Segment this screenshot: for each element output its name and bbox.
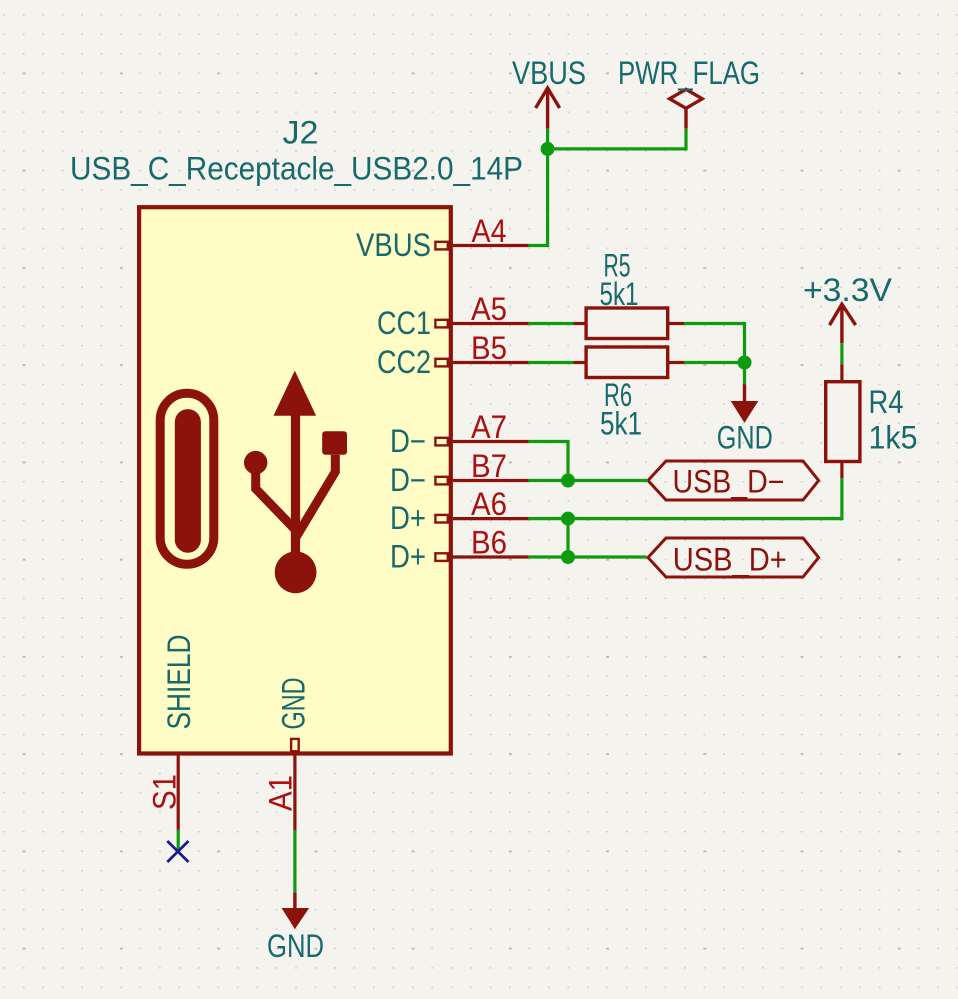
svg-text:B5: B5	[471, 330, 507, 366]
svg-text:+3.3V: +3.3V	[803, 272, 893, 308]
svg-text:B6: B6	[471, 525, 507, 561]
svg-text:A7: A7	[471, 409, 507, 445]
pin B5 CC2	[377, 330, 529, 380]
svg-text:A5: A5	[471, 291, 507, 327]
wire VBUS to PWR_FLAG	[548, 129, 686, 149]
wire A6 to R4	[529, 478, 842, 518]
svg-text:B7: B7	[471, 448, 507, 484]
svg-text:PWR_FLAG: PWR_FLAG	[618, 55, 760, 91]
wire VBUS vertical	[529, 129, 548, 246]
svg-text:CC2: CC2	[377, 344, 431, 380]
svg-text:D−: D−	[390, 462, 426, 498]
wire A6 to B6	[566, 519, 569, 557]
svg-text:S1: S1	[147, 774, 183, 810]
wire R6 to GND net	[684, 361, 745, 364]
svg-text:GND: GND	[276, 678, 312, 730]
junction A6	[561, 512, 575, 526]
junction GND net	[738, 356, 752, 370]
resistor R5	[574, 248, 685, 339]
svg-text:USB_D−: USB_D−	[673, 464, 785, 500]
svg-text:A6: A6	[471, 486, 507, 522]
no-connect X on S1	[167, 841, 188, 862]
svg-text:5k1: 5k1	[600, 406, 642, 442]
pin B6 D+	[390, 525, 529, 575]
wire B6 to USB_D+	[529, 555, 647, 558]
wire R4 to +3.3V	[840, 343, 843, 364]
pin A6 D+	[390, 486, 529, 536]
USB-C connector icon (stadium outline)	[160, 393, 214, 564]
wire CC2 to R6	[529, 361, 574, 364]
svg-text:A4: A4	[472, 213, 507, 249]
pin S1 SHIELD	[147, 635, 198, 830]
hierarchical label USB_D+	[648, 538, 819, 578]
svg-text:USB_C_Receptacle_USB2.0_14P: USB_C_Receptacle_USB2.0_14P	[70, 151, 523, 187]
wire A1 to GND	[293, 830, 296, 892]
USB trident logo	[244, 371, 347, 594]
value USB_C_Receptacle_USB2.0_14P	[70, 151, 523, 187]
resistor R4	[826, 364, 918, 478]
wire S1 stub	[177, 830, 180, 851]
svg-text:5k1: 5k1	[600, 276, 639, 312]
svg-text:D+: D+	[390, 500, 426, 536]
svg-text:GND: GND	[267, 928, 324, 964]
svg-text:D+: D+	[390, 539, 426, 575]
svg-text:USB_D+: USB_D+	[673, 542, 787, 578]
svg-text:D−: D−	[390, 423, 426, 459]
pin B7 D-	[390, 448, 529, 498]
pin A5 CC1	[377, 291, 529, 341]
power symbol PWR_FLAG	[618, 55, 760, 129]
wire R5 to GND net	[684, 324, 745, 385]
svg-text:1k5: 1k5	[869, 420, 918, 456]
svg-text:CC1: CC1	[377, 305, 431, 341]
pin A7 D-	[390, 409, 529, 459]
power symbol VBUS	[512, 55, 586, 129]
power symbol GND (mid)	[717, 384, 773, 455]
reference J2	[283, 115, 319, 151]
svg-text:GND: GND	[717, 420, 773, 456]
svg-text:VBUS: VBUS	[512, 55, 586, 91]
svg-text:R4: R4	[869, 384, 904, 420]
pin A4 VBUS	[356, 213, 529, 263]
connector J2 body	[139, 207, 451, 753]
svg-text:VBUS: VBUS	[356, 227, 431, 263]
svg-text:SHIELD: SHIELD	[161, 635, 197, 730]
svg-text:J2: J2	[283, 115, 319, 151]
power symbol GND (bottom)	[267, 892, 324, 964]
wire A7 to B7	[529, 442, 568, 481]
pin A1 GND	[263, 678, 312, 831]
resistor R6	[574, 347, 685, 442]
junction B6	[561, 550, 575, 564]
junction VBUS	[541, 142, 555, 156]
power symbol +3.3V	[803, 272, 893, 343]
svg-text:A1: A1	[263, 775, 299, 811]
hierarchical label USB_D-	[648, 461, 819, 500]
wire B7 to USB_D-	[529, 479, 648, 482]
wire CC1 to R5	[529, 322, 574, 325]
junction B7	[561, 474, 575, 488]
